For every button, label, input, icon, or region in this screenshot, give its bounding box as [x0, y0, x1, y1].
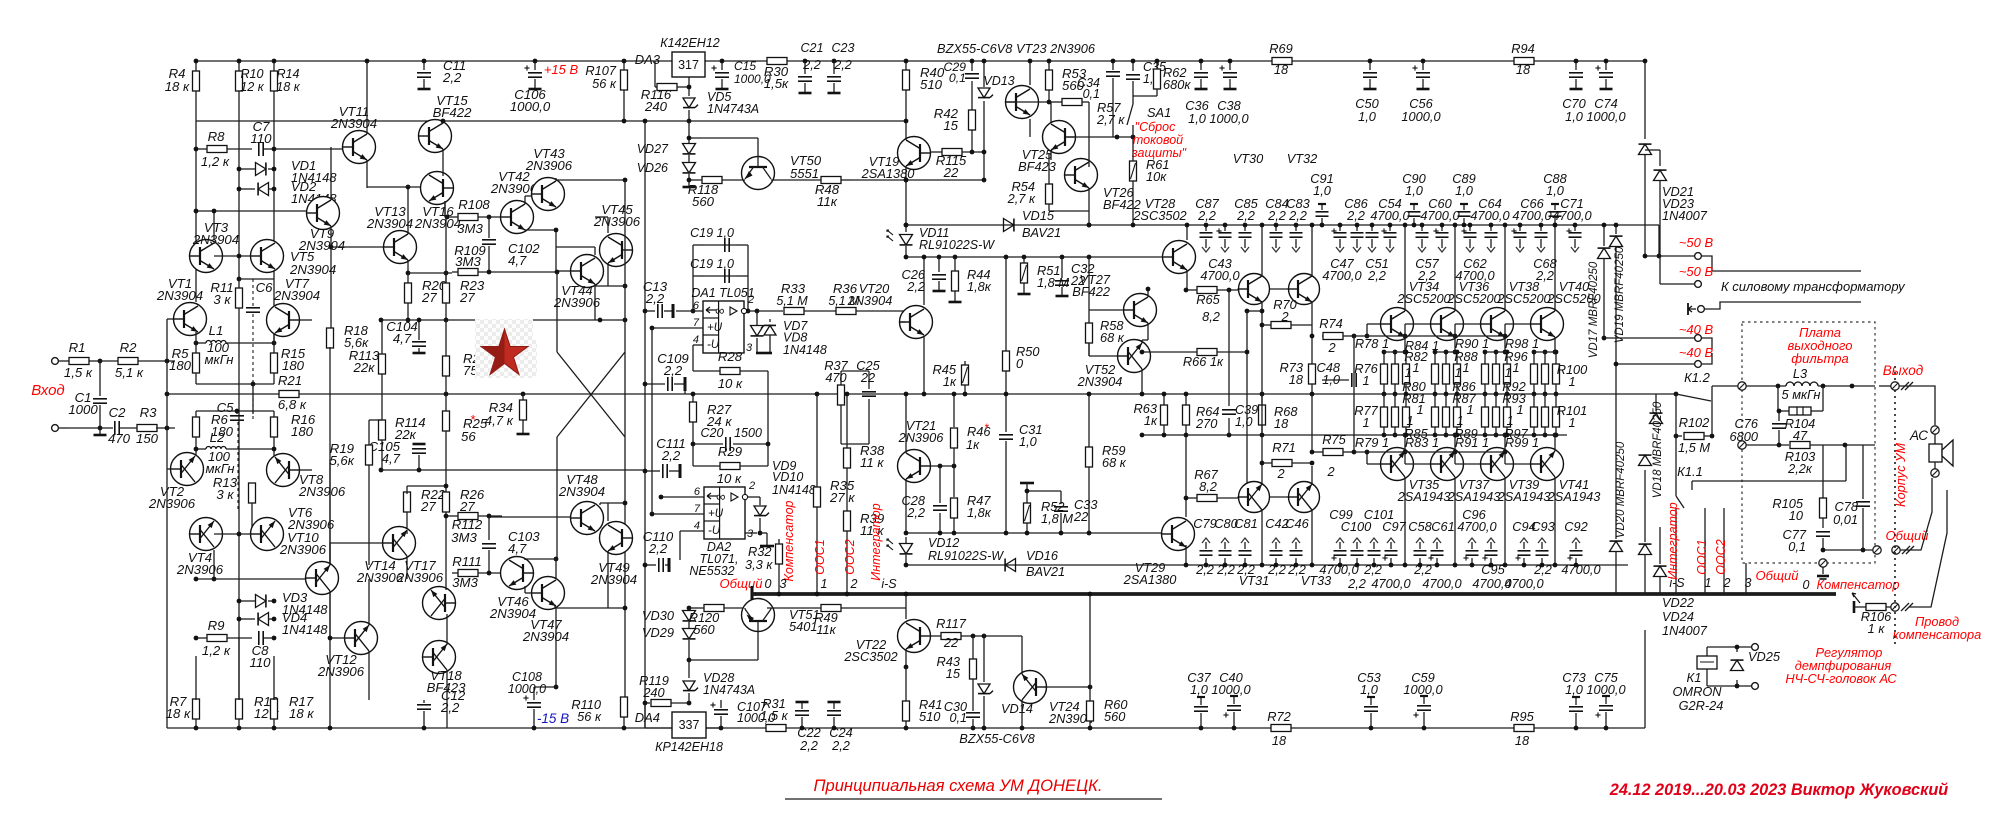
svg-text:11к: 11к — [816, 622, 836, 637]
svg-text:24.12 2019...20.03 2023 Виктор: 24.12 2019...20.03 2023 Виктор Жуковский — [1609, 781, 1949, 799]
svg-text:2N3904: 2N3904 — [489, 606, 536, 621]
resistor bank lower emitter — [1432, 394, 1461, 437]
bus left end — [752, 586, 756, 602]
wire VT26 base — [1088, 129, 1090, 167]
label VT34 — [1396, 279, 1451, 306]
svg-text:R72: R72 — [1267, 709, 1290, 724]
capacitor C13 — [643, 279, 673, 318]
svg-text:2N3906: 2N3906 — [298, 484, 346, 499]
svg-text:15: 15 — [946, 666, 961, 681]
label OOC1 vert — [813, 539, 827, 574]
svg-text:10 к: 10 к — [718, 376, 743, 391]
diode VD25 — [1731, 649, 1781, 671]
svg-text:C23: C23 — [832, 41, 855, 55]
transistor VT42 — [490, 169, 538, 234]
label C83 — [1286, 196, 1309, 223]
resistor R112 — [444, 513, 502, 546]
svg-text:2,2: 2,2 — [1267, 208, 1286, 223]
label title — [785, 776, 1162, 799]
resistor R45 — [933, 361, 969, 396]
svg-text:R102: R102 — [1679, 415, 1710, 430]
wire x557 riser — [556, 272, 558, 352]
relay terminals — [1752, 644, 1759, 690]
svg-text:2: 2 — [1276, 466, 1284, 481]
diode VD15 BAV21 — [1004, 208, 1062, 240]
label Интегратор right — [1666, 502, 1680, 579]
transistor VT44 — [553, 255, 604, 311]
svg-text:18 к: 18 к — [166, 706, 191, 721]
transistor VT32 — [1288, 274, 1320, 305]
wire C19 loop — [691, 245, 751, 313]
resistor bank lower emitter — [1482, 394, 1511, 437]
svg-text:К1: К1 — [1687, 670, 1702, 685]
svg-text:6,8 к: 6,8 к — [278, 397, 307, 412]
resistor bank upper emitter — [1432, 350, 1461, 397]
wire C5 dashed — [237, 422, 239, 511]
svg-text:1N4743А: 1N4743А — [703, 683, 755, 697]
transistor VT45 — [593, 202, 641, 267]
diode VD16 BAV21 — [1005, 548, 1065, 579]
label VT35 — [1397, 477, 1451, 504]
svg-text:C19 1,0: C19 1,0 — [690, 226, 734, 240]
transistor VT51 — [689, 599, 820, 661]
resistor R61 — [1130, 137, 1170, 227]
svg-text:2SC3502: 2SC3502 — [1132, 208, 1186, 223]
wire output/feedback line — [167, 393, 1676, 395]
svg-text:C6: C6 — [256, 280, 274, 295]
wire pin3 gnd — [760, 533, 774, 546]
label C96 — [1457, 507, 1497, 534]
relay contact K1.1 — [1676, 445, 1846, 594]
svg-text:2N3906: 2N3906 — [317, 664, 365, 679]
svg-text:R71: R71 — [1272, 440, 1295, 455]
transistor VT6 — [251, 505, 335, 551]
transistor VT30 — [1238, 274, 1270, 305]
label VD17 MBRF40250 — [1588, 261, 1600, 358]
svg-text:4,7 к: 4,7 к — [485, 413, 514, 428]
svg-text:К силовому трансформатору: К силовому трансформатору — [1721, 279, 1906, 294]
capacitor C50 — [1355, 59, 1379, 124]
wire VT24 col — [984, 636, 1022, 674]
opamp DA1 TL051 — [691, 286, 754, 353]
capacitor C73 — [1562, 670, 1585, 730]
node R18 bottom rail — [328, 726, 333, 731]
wire driver sense link — [1245, 309, 1262, 501]
svg-text:R94: R94 — [1511, 41, 1534, 56]
svg-text:R111: R111 — [452, 554, 482, 569]
label VT37 — [1447, 477, 1501, 504]
resistor R109 — [452, 243, 556, 276]
svg-text:R117: R117 — [936, 616, 967, 631]
wire pnp base rail — [1354, 451, 1505, 453]
diode VD29 — [642, 622, 696, 678]
resistor R35 — [814, 478, 856, 596]
capacitor C48 — [1317, 360, 1357, 387]
LED VD12 — [887, 536, 1004, 567]
wire VT46-VT47 — [525, 586, 532, 593]
node C104 top — [417, 318, 422, 323]
terminal ~40V b — [1614, 353, 1712, 367]
resistor R19 — [329, 441, 372, 565]
wire x625 main — [624, 180, 626, 697]
svg-text:180: 180 — [291, 424, 314, 439]
svg-text:С58: С58 — [1408, 519, 1432, 534]
svg-text:1,0: 1,0 — [1405, 183, 1424, 198]
label R91 1 — [1455, 435, 1489, 450]
wire VT27 wires — [1089, 287, 1150, 340]
star emblem — [481, 329, 528, 375]
node rail dots — [194, 726, 277, 731]
resistor R24 — [443, 320, 488, 384]
resistor R32 — [745, 539, 783, 596]
label C42 — [1265, 516, 1288, 577]
resistor R31 — [760, 696, 788, 732]
svg-text:2,2: 2,2 — [645, 291, 665, 306]
svg-text:270: 270 — [1195, 416, 1218, 431]
node R4 top — [194, 59, 199, 64]
svg-text:R3: R3 — [140, 405, 158, 420]
svg-text:2,2: 2,2 — [440, 700, 460, 715]
diode VD8 — [761, 319, 827, 357]
node y273 — [406, 271, 449, 276]
wire VT4 collector — [212, 550, 217, 581]
pin2 — [747, 294, 783, 313]
label BZX55 bottom — [959, 731, 1035, 746]
svg-text:1: 1 — [1406, 413, 1413, 428]
capacitor C1 — [68, 361, 107, 428]
resistor R25 — [443, 411, 488, 480]
svg-text:DA4: DA4 — [635, 710, 660, 725]
trimmer R106 — [1852, 593, 1892, 636]
transistor VT48 — [558, 472, 605, 535]
wire VT43 collector — [556, 178, 627, 183]
label +15V — [544, 62, 579, 77]
resistor R47 — [951, 466, 992, 535]
svg-text:2N3906: 2N3906 — [593, 214, 641, 229]
svg-text:R95: R95 — [1510, 709, 1534, 724]
svg-text:22: 22 — [1073, 509, 1088, 524]
svg-text:C2: C2 — [109, 405, 127, 420]
diode small extra — [1654, 527, 1667, 594]
svg-text:18: 18 — [1274, 416, 1289, 431]
resistor R44 — [949, 257, 992, 302]
diode VD26 VD27 — [637, 121, 696, 187]
svg-text:DA1 TL051: DA1 TL051 — [691, 286, 754, 300]
capacitor C26 — [902, 257, 946, 294]
svg-text:2: 2 — [1723, 576, 1731, 590]
diode VD13 — [978, 59, 1015, 180]
svg-text:1000,0: 1000,0 — [1586, 682, 1626, 697]
capacitor C24 — [827, 702, 853, 753]
wire VT out npn leads — [1453, 223, 1458, 355]
svg-text:R14: R14 — [276, 67, 299, 81]
svg-text:4,7: 4,7 — [508, 253, 527, 268]
svg-text:Интегратор: Интегратор — [869, 503, 883, 580]
svg-text:КР142ЕН18: КР142ЕН18 — [655, 740, 723, 754]
capacitor C21 — [798, 41, 823, 93]
svg-text:56: 56 — [461, 429, 476, 444]
svg-text:3 к: 3 к — [213, 292, 231, 307]
svg-text:1,5к: 1,5к — [764, 76, 789, 91]
svg-text:2N3904: 2N3904 — [590, 572, 637, 587]
resistor R48 — [771, 177, 852, 210]
capacitor C20 — [691, 426, 771, 451]
svg-text:2SA1380: 2SA1380 — [1123, 572, 1178, 587]
svg-text:22к: 22к — [353, 360, 376, 375]
wire y435 sense line — [1140, 433, 1567, 438]
wire npn base taps — [1403, 324, 1430, 338]
svg-text:3М3: 3М3 — [452, 575, 478, 590]
svg-text:0: 0 — [1803, 578, 1810, 592]
node y257 dots — [937, 255, 1092, 260]
svg-text:L2: L2 — [210, 430, 225, 445]
svg-text:Компенсатор: Компенсатор — [782, 500, 796, 581]
svg-text:НЧ-СЧ-головок АС: НЧ-СЧ-головок АС — [1785, 671, 1897, 686]
svg-text:1,0: 1,0 — [1322, 372, 1341, 387]
pin7b — [650, 503, 704, 516]
svg-text:7: 7 — [694, 503, 701, 515]
transistor VT41 2SA1943 — [1531, 448, 1564, 481]
svg-text:11к: 11к — [817, 194, 838, 209]
svg-text:токовой: токовой — [1133, 133, 1183, 147]
label R101 — [1557, 403, 1588, 430]
svg-text:1,0: 1,0 — [1358, 109, 1377, 124]
svg-text:4700,0: 4700,0 — [1457, 519, 1497, 534]
label C68 — [1533, 256, 1557, 283]
svg-text:2N3906: 2N3906 — [396, 570, 444, 585]
svg-text:1000,0: 1000,0 — [1401, 109, 1441, 124]
wire VT11 collector — [365, 59, 370, 134]
svg-text:1000,0: 1000,0 — [1586, 109, 1626, 124]
wire VT23 wires — [1006, 59, 1051, 137]
svg-text:1000,0: 1000,0 — [1211, 682, 1251, 697]
svg-text:~50 В: ~50 В — [1679, 264, 1714, 279]
svg-text:2: 2 — [748, 480, 755, 492]
resistor R33 — [776, 281, 836, 315]
svg-text:4,7: 4,7 — [382, 451, 401, 466]
label R100 — [1557, 362, 1588, 389]
capacitor C75 — [1586, 670, 1626, 730]
svg-text:8,2: 8,2 — [1199, 479, 1217, 494]
svg-text:0,01: 0,01 — [1833, 512, 1858, 527]
label VD19 MBRF40250 — [1614, 246, 1626, 343]
resistor R42 — [934, 106, 976, 133]
svg-text:510: 510 — [919, 709, 941, 724]
diode VD24 — [1639, 470, 1652, 594]
svg-text:4: 4 — [693, 334, 699, 346]
label C66 — [1512, 196, 1552, 223]
node VT9 emitter branch — [329, 245, 334, 250]
svg-text:1к: 1к — [966, 437, 980, 452]
svg-text:R65: R65 — [1196, 292, 1220, 307]
node rail end — [1643, 59, 1648, 64]
resistor R28 — [693, 349, 768, 391]
label R81 — [1402, 391, 1425, 406]
transistor VT38 2SC5200 — [1481, 308, 1514, 341]
svg-text:56 к: 56 к — [592, 76, 617, 91]
svg-text:C5: C5 — [217, 400, 235, 415]
wire VT13 emitter — [407, 260, 409, 273]
label ~40V a — [1679, 322, 1714, 337]
wire x645 column — [643, 119, 648, 728]
wire VT out npn leads — [1403, 223, 1408, 355]
label R92 — [1502, 365, 1525, 394]
label R77 — [1354, 403, 1378, 430]
capacitor C19a — [690, 226, 736, 252]
wire ground bus — [755, 592, 1836, 596]
svg-text:1,0: 1,0 — [1313, 183, 1332, 198]
svg-text:18 к: 18 к — [276, 80, 301, 94]
capacitor C109 — [643, 351, 690, 394]
transistor VT50 — [742, 138, 822, 190]
transistor VT24 — [1014, 671, 1094, 727]
wire VT32 leads — [1310, 223, 1315, 364]
wire VT48 base — [489, 516, 571, 518]
svg-text:2N3904: 2N3904 — [289, 262, 336, 277]
svg-text:VD12: VD12 — [928, 536, 959, 550]
transistor VT25 — [1018, 121, 1075, 175]
diode VD4 1N4148 — [237, 610, 329, 637]
capacitor bank top supply — [1200, 223, 1582, 252]
svg-text:4700,0: 4700,0 — [1371, 576, 1411, 591]
terminal ~50V a — [1643, 253, 1861, 271]
svg-text:~40 В: ~40 В — [1679, 345, 1714, 360]
transistor VT36 2SC5200 — [1431, 308, 1464, 341]
label R87 — [1452, 391, 1476, 406]
svg-text:8,2: 8,2 — [1202, 309, 1220, 324]
transistor VT22 — [843, 620, 930, 665]
svg-text:2,2: 2,2 — [1535, 268, 1554, 283]
svg-text:1,0: 1,0 — [1565, 682, 1584, 697]
resistor R108 — [445, 197, 502, 236]
svg-text:1N4148: 1N4148 — [783, 343, 827, 357]
resistor R118 — [687, 177, 745, 210]
terminal comp — [1891, 603, 1899, 611]
wire y470 left — [379, 468, 645, 473]
svg-text:VD13: VD13 — [983, 74, 1014, 88]
svg-text:3М3: 3М3 — [451, 530, 477, 545]
svg-text:18 к: 18 к — [165, 79, 190, 94]
label K1 — [1687, 670, 1702, 685]
svg-text:150: 150 — [136, 431, 159, 446]
svg-text:VD15: VD15 — [1022, 208, 1055, 223]
svg-text:2,2: 2,2 — [1363, 562, 1382, 577]
label C99 — [1319, 507, 1359, 577]
svg-text:2N3904: 2N3904 — [414, 216, 461, 231]
pin7 — [650, 317, 703, 330]
wire y279 line — [239, 278, 274, 280]
svg-text:2SC5200: 2SC5200 — [1496, 291, 1551, 306]
diode VD28 — [683, 671, 755, 703]
resistor R6 — [193, 411, 234, 456]
svg-text:1000: 1000 — [68, 402, 98, 417]
svg-text:2: 2 — [850, 577, 858, 591]
resistor R114 — [379, 394, 426, 470]
svg-text:~50 В: ~50 В — [1679, 235, 1714, 250]
svg-text:1: 1 — [1705, 576, 1712, 590]
wire VT48 collector — [600, 501, 627, 506]
svg-text:5,1 к: 5,1 к — [115, 365, 144, 380]
svg-text:470: 470 — [108, 431, 131, 446]
svg-text:2,2: 2,2 — [1197, 208, 1216, 223]
wire y273 line — [408, 272, 452, 274]
svg-text:11 к: 11 к — [860, 455, 884, 470]
svg-text:ООС1: ООС1 — [813, 539, 827, 574]
svg-text:4700,0: 4700,0 — [1512, 208, 1552, 223]
svg-text:1,0: 1,0 — [1565, 109, 1584, 124]
resistor R5 — [169, 343, 200, 384]
svg-text:VD18 MBRF40250: VD18 MBRF40250 — [1652, 401, 1664, 498]
resistor R116 — [641, 61, 689, 114]
label -15V — [537, 711, 569, 726]
svg-text:4700,0: 4700,0 — [1470, 208, 1510, 223]
svg-text:2,2: 2,2 — [802, 58, 820, 72]
wire VT out pnp leads — [1553, 433, 1558, 568]
svg-text:ООС2: ООС2 — [1714, 539, 1728, 574]
svg-text:4700,0: 4700,0 — [1561, 562, 1601, 577]
resistor R65 — [1184, 287, 1238, 325]
transistor VT40 2SC5200 — [1531, 308, 1564, 341]
label VT41 — [1547, 477, 1601, 504]
wire VT out pnp leads — [1503, 433, 1508, 568]
label C101 — [1363, 507, 1394, 577]
svg-text:1 к: 1 к — [1868, 621, 1886, 636]
label VT32 — [1287, 151, 1318, 166]
resistor R94 — [1511, 41, 1534, 77]
transistor VT8 — [267, 454, 346, 500]
resistor R120 — [689, 605, 743, 638]
svg-text:240: 240 — [642, 685, 665, 700]
svg-text:560: 560 — [1104, 709, 1126, 724]
svg-text:27: 27 — [459, 499, 475, 514]
svg-text:2,2: 2,2 — [1236, 562, 1255, 577]
svg-text:4,7: 4,7 — [393, 331, 412, 346]
resistor R66 — [1140, 349, 1250, 370]
svg-text:2SA1943: 2SA1943 — [1497, 489, 1551, 504]
capacitor C34 — [1077, 59, 1120, 137]
svg-text:22: 22 — [943, 635, 958, 650]
terminal ~50V b — [1660, 281, 1701, 288]
wire VT47 emitter — [555, 606, 627, 611]
wire VT19 collector — [852, 166, 986, 182]
label C79 — [1193, 516, 1216, 577]
capacitor C105 — [368, 439, 426, 470]
svg-text:18: 18 — [1289, 372, 1304, 387]
wire VT50 base feed — [687, 136, 758, 141]
pin4 — [693, 334, 703, 371]
svg-text:2,2: 2,2 — [1347, 576, 1366, 591]
svg-text:2: 2 — [1326, 464, 1334, 479]
svg-text:0,1: 0,1 — [949, 71, 966, 85]
wire top cap-bank rail — [906, 225, 1661, 258]
svg-text:1,5 М: 1,5 М — [1678, 440, 1710, 455]
wire VT44 collector — [556, 247, 595, 255]
capacitor C77 — [1783, 527, 1830, 554]
svg-text:VD25: VD25 — [1748, 649, 1781, 664]
resistor bank lower emitter — [1381, 394, 1410, 437]
svg-text:АС: АС — [1909, 428, 1928, 443]
resistor R37 — [824, 358, 848, 444]
resistor R36 — [828, 281, 906, 315]
resistor R59 — [1086, 392, 1127, 536]
resistor R12 — [236, 637, 280, 728]
resistor R111 — [452, 554, 502, 590]
svg-text:2,2: 2,2 — [831, 738, 850, 753]
resistor R69 — [1269, 41, 1292, 77]
transistor VT49 — [590, 522, 637, 588]
svg-text:G2R-24: G2R-24 — [1679, 698, 1724, 713]
resistor R3 — [120, 405, 175, 446]
